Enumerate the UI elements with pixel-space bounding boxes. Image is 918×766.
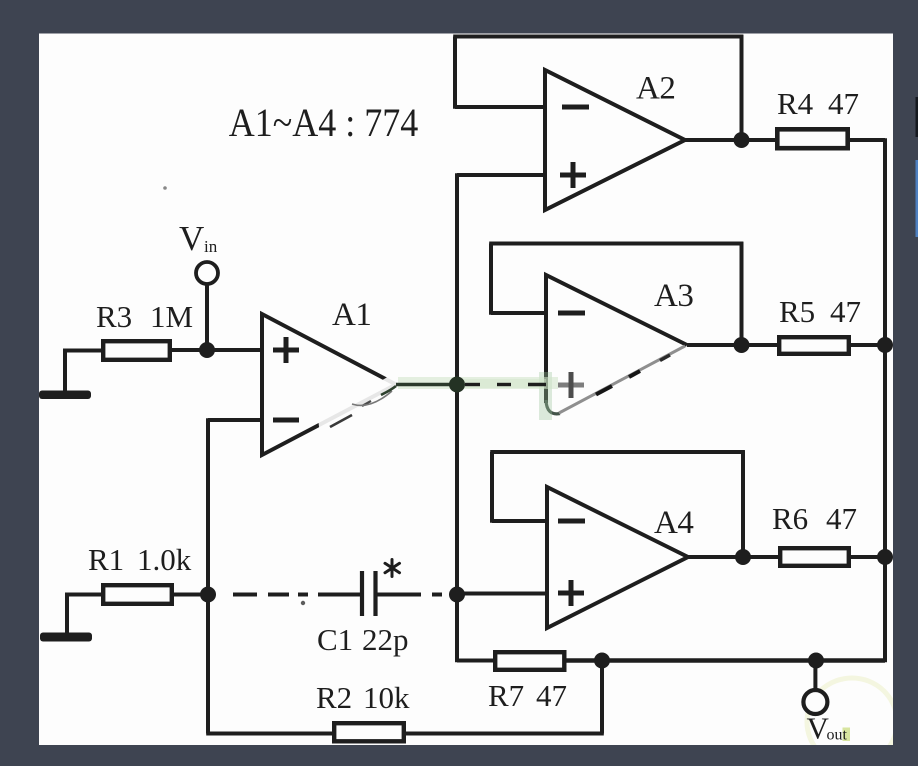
- node A3 output junction: [734, 337, 750, 353]
- wire A4 inverting input: [492, 519, 547, 523]
- wire R4 to right bus: [849, 138, 885, 142]
- right edge blue segment: [916, 160, 918, 237]
- wire A3 non-inverting input (dashed artifact): [465, 383, 546, 386]
- wire R6 to right bus: [851, 555, 885, 559]
- svg-text:R7: R7: [488, 678, 524, 713]
- op-amp A3: [546, 275, 687, 414]
- wire A2 feedback left vertical: [453, 37, 457, 109]
- wire R5 to right bus: [851, 343, 885, 347]
- svg-text:47: 47: [830, 294, 861, 329]
- op-amp A1: [262, 314, 396, 455]
- wire A2 feedback right vertical: [740, 35, 744, 140]
- svg-text:out: out: [827, 727, 848, 744]
- wire right bus vertical: [883, 138, 887, 662]
- svg-text:A1: A1: [332, 297, 371, 333]
- wire R7 line left: [457, 659, 493, 663]
- wire A3 feedback top: [489, 242, 743, 246]
- ground bar upper: [39, 391, 91, 400]
- wire R1 right to node: [174, 593, 208, 597]
- svg-text:R1: R1: [88, 542, 124, 577]
- svg-text:1M: 1M: [150, 299, 193, 334]
- node A1 output junction: [449, 377, 465, 393]
- op-amp A2: [545, 70, 685, 210]
- wire A3 output: [687, 343, 777, 347]
- wire Vin to node: [205, 285, 209, 351]
- resistor R1: [103, 585, 172, 604]
- resistor R2: [334, 723, 404, 741]
- scan erasure artifact on A1 lower edge: [318, 372, 402, 435]
- node A1 plus input junction: [199, 342, 215, 358]
- node R1 junction: [200, 587, 216, 603]
- svg-text:A2: A2: [636, 71, 675, 107]
- wire A1 inverting input: [208, 418, 262, 422]
- wire A2 inverting input: [455, 105, 545, 109]
- wire A4 feedback right vertical: [741, 450, 745, 557]
- wire A1 output: [396, 383, 457, 386]
- node A2 output junction: [734, 132, 750, 148]
- svg-text:10k: 10k: [363, 680, 410, 715]
- node C1 bus junction: [449, 587, 465, 603]
- node A4 output junction: [735, 549, 751, 565]
- svg-text:A4: A4: [654, 505, 693, 541]
- wire middle bus vertical: [455, 173, 459, 662]
- node Vout junction: [808, 653, 824, 669]
- svg-text:A1~A4 : 774: A1~A4 : 774: [229, 100, 418, 145]
- svg-text:47: 47: [826, 501, 857, 536]
- wire A3 inverting input: [491, 311, 546, 315]
- wire R2 loop vertical right: [600, 661, 604, 734]
- wire A4 output: [688, 555, 778, 559]
- wire A4 feedback left vertical: [490, 452, 494, 523]
- resistor R7: [495, 652, 564, 670]
- wire R3 right to node: [172, 348, 207, 352]
- wire Vout drop: [813, 661, 817, 691]
- wire A2 non-inverting input: [457, 173, 545, 177]
- resistor R5: [779, 337, 849, 354]
- svg-text:47: 47: [828, 86, 859, 121]
- svg-text:1.0k: 1.0k: [137, 542, 192, 577]
- wire R1 left bend: [67, 595, 101, 636]
- terminal Vout: [803, 690, 827, 714]
- right edge black segment: [916, 97, 918, 137]
- svg-text:R2: R2: [316, 680, 352, 715]
- ground bar lower: [40, 633, 92, 642]
- capacitor C1 dashed wire right: [378, 593, 443, 597]
- wire A4 non-inverting input: [457, 592, 547, 596]
- wire A4 feedback top: [490, 450, 745, 454]
- svg-text:R3: R3: [96, 299, 132, 334]
- op-amp A4: [547, 487, 688, 628]
- resistor R4: [777, 129, 847, 148]
- node R7 junction: [594, 653, 610, 669]
- wire R7 to Vout line: [566, 658, 885, 663]
- wire R3 left bend: [65, 351, 101, 394]
- svg-text:22p: 22p: [362, 622, 409, 657]
- svg-text:47: 47: [536, 678, 567, 713]
- wire R2 loop bottom: [206, 732, 604, 736]
- node R6 right junction: [877, 549, 893, 565]
- wire node to A1 plus input: [207, 348, 262, 352]
- watermark blob near Vout: [807, 678, 897, 766]
- svg-text:C1: C1: [317, 622, 353, 657]
- svg-text:R6: R6: [772, 501, 808, 536]
- wire A3 feedback right vertical: [740, 242, 744, 345]
- wire A2 feedback top: [453, 35, 743, 39]
- node R5 right junction: [877, 337, 893, 353]
- capacitor C1 dashed wire left: [233, 593, 360, 597]
- svg-text:V: V: [179, 219, 204, 258]
- svg-text:A3: A3: [654, 278, 693, 314]
- wire A1 feedback vertical: [206, 418, 210, 733]
- resistor R3: [103, 341, 170, 360]
- svg-text:in: in: [204, 237, 218, 256]
- capacitor C1: [362, 571, 376, 616]
- green smudge artifact near A1 output: [398, 377, 558, 389]
- svg-text:R5: R5: [779, 294, 815, 329]
- svg-text:R4: R4: [777, 86, 814, 121]
- resistor R6: [780, 548, 849, 566]
- speck artifacts: [163, 186, 167, 190]
- wire A3 feedback left vertical: [489, 244, 493, 315]
- wire A2 output: [685, 138, 775, 142]
- green smudge artifact at A3 lower-left vertex: [462, 372, 552, 420]
